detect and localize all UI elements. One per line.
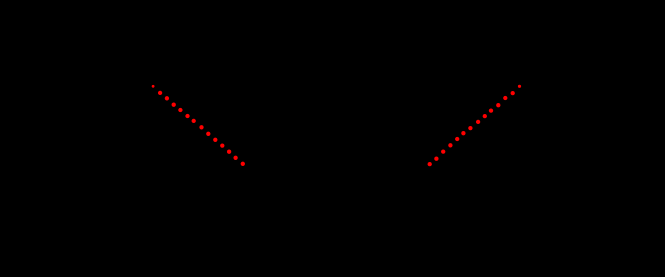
right red dotted line (descending right-to-left) [428, 85, 522, 167]
left red dotted line (descending left-to-right) [152, 85, 245, 166]
